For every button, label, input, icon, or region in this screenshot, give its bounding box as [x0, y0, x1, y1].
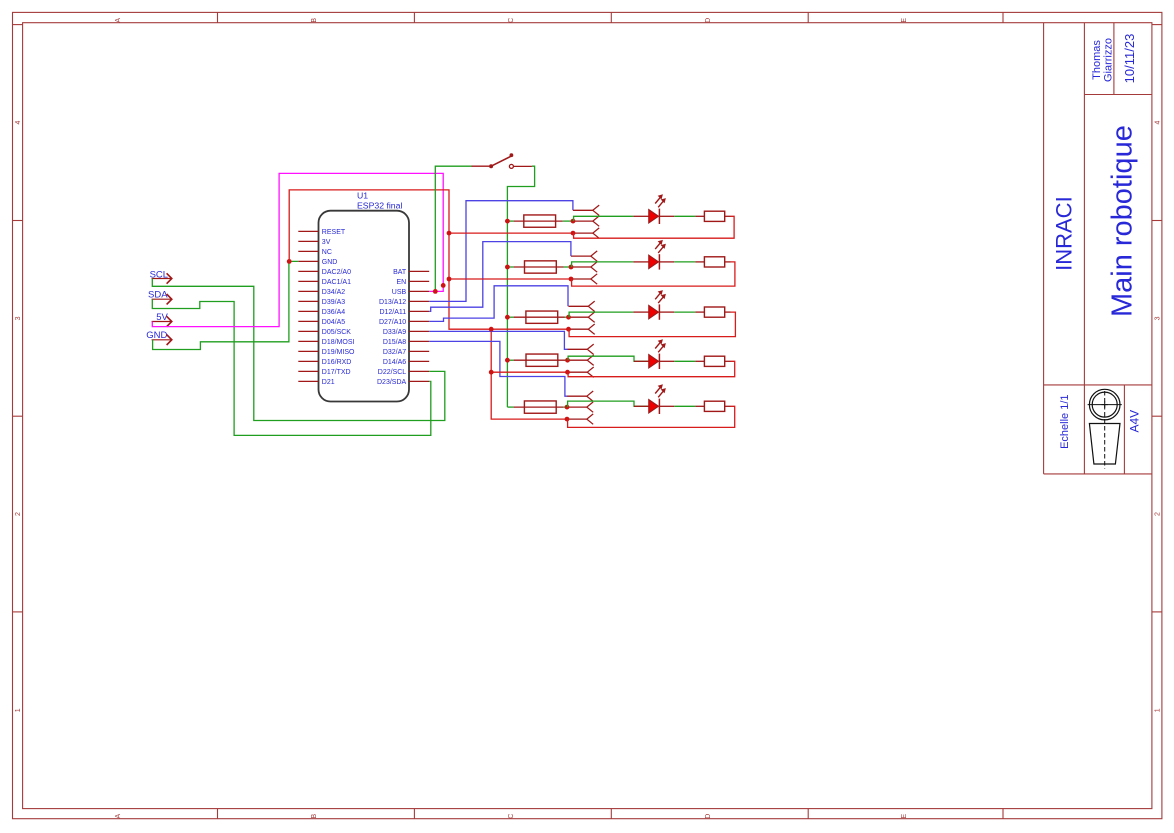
chip pin left D17/TXD — [298, 370, 318, 372]
wire wrap R3b back to J3 bottom — [569, 312, 735, 337]
chip pin right D12/A11 — [409, 310, 429, 312]
svg-text:1: 1 — [15, 708, 22, 712]
chip pin right D14/A6 — [409, 360, 429, 362]
svg-text:D22/SCL: D22/SCL — [378, 369, 407, 376]
wire LED4 to R4b — [659, 360, 674, 362]
svg-text:D15/A8: D15/A8 — [383, 339, 406, 346]
junction red riser row4 — [489, 370, 494, 375]
frame row dividers — [13, 220, 23, 222]
chip pin left GND — [298, 260, 318, 262]
svg-text:10/11/23: 10/11/23 — [1122, 34, 1137, 84]
svg-text:D: D — [705, 18, 712, 23]
chip pin left 3V — [298, 240, 318, 242]
connector J5 pins — [567, 395, 587, 397]
resistor R3a (series) — [507, 316, 513, 318]
svg-text:INRACI: INRACI — [1052, 196, 1077, 271]
svg-text:C: C — [508, 18, 515, 23]
junction green bus row4 — [505, 358, 510, 363]
chip pin right D13/A12 — [409, 300, 429, 302]
switch S1 lead left — [472, 165, 490, 167]
LED D4 emission arrows — [655, 341, 661, 349]
junction J3 bottom pin — [566, 327, 571, 332]
svg-text:D14/A6: D14/A6 — [383, 359, 406, 366]
wire green J5 to LED5 — [568, 401, 649, 407]
junction on 5V wire — [441, 283, 446, 288]
svg-text:DAC2/A0: DAC2/A0 — [322, 269, 351, 276]
connector J3 pins — [569, 305, 589, 307]
wire LED2 to R2b — [659, 261, 674, 263]
wire blue D33/A9 to J4 — [429, 331, 567, 349]
LED D1 emission arrows — [655, 196, 661, 204]
wire green J4 to LED4 — [568, 356, 649, 361]
svg-text:GND: GND — [322, 259, 338, 266]
svg-text:D13/A12: D13/A12 — [379, 299, 406, 306]
svg-text:D36/A4: D36/A4 — [322, 309, 345, 316]
wire blue D12/A11 to J2 — [429, 242, 571, 312]
svg-text:D19/MISO: D19/MISO — [322, 349, 355, 356]
wire red bus row3 — [491, 328, 568, 330]
connector J1 pins — [573, 209, 593, 211]
svg-text:D16/RXD: D16/RXD — [322, 359, 352, 366]
resistor R5a (series) — [507, 406, 513, 408]
junction green bus row1 — [505, 219, 510, 224]
chip pin left DAC1/A1 — [298, 280, 318, 282]
wire 5V net magenta (5V label to USB pin) — [152, 173, 443, 326]
svg-text:RESET: RESET — [322, 229, 346, 236]
svg-text:D04/A5: D04/A5 — [322, 319, 345, 326]
chip pin left NC — [298, 250, 318, 252]
junction J1 middle pin — [571, 219, 576, 224]
svg-text:A4V: A4V — [1128, 410, 1142, 433]
wire green switch feed to USB — [435, 166, 471, 291]
svg-text:D18/MOSI: D18/MOSI — [322, 339, 355, 346]
resistor R4b — [704, 356, 724, 366]
chip pin right D23/SDA — [409, 380, 429, 382]
LED D2 — [649, 255, 659, 268]
chip pin right D22/SCL — [409, 370, 429, 372]
svg-text:4: 4 — [15, 121, 22, 125]
svg-text:U1: U1 — [357, 191, 368, 201]
chip pin left DAC2/A0 — [298, 270, 318, 272]
svg-text:EN: EN — [396, 279, 406, 286]
svg-text:E: E — [901, 814, 908, 819]
junction red riser row3 — [489, 327, 494, 332]
LED D1 — [649, 210, 659, 223]
projection symbol — [1089, 389, 1120, 420]
wire red bus row1 — [449, 232, 573, 234]
svg-text:D27/A10: D27/A10 — [379, 319, 406, 326]
svg-text:USB: USB — [392, 289, 407, 296]
svg-text:2: 2 — [15, 512, 22, 516]
chip pin left D36/A4 — [298, 310, 318, 312]
svg-text:D17/TXD: D17/TXD — [322, 369, 351, 376]
svg-text:D23/SDA: D23/SDA — [377, 379, 407, 386]
wire LED5 to R5b — [659, 405, 674, 407]
svg-text:3: 3 — [1155, 316, 1162, 320]
junction green bus row2 — [505, 265, 510, 270]
svg-text:D: D — [705, 814, 712, 819]
junction J3 middle pin — [566, 315, 571, 320]
chip pin right D27/A10 — [409, 320, 429, 322]
chip pin left D19/MISO — [298, 350, 318, 352]
frame band top ticks — [13, 24, 23, 26]
svg-text:D21: D21 — [322, 379, 335, 386]
junction J2 middle pin — [569, 265, 574, 270]
chip pin left D18/MOSI — [298, 340, 318, 342]
svg-text:D39/A3: D39/A3 — [322, 299, 345, 306]
connector J2 pins — [571, 255, 591, 257]
wire LED3 to R3b — [659, 311, 674, 313]
svg-text:A: A — [115, 814, 122, 819]
wire LED1 to R1b — [659, 215, 674, 217]
svg-text:2: 2 — [1155, 512, 1162, 516]
chip pin right D33/A9 — [409, 330, 429, 332]
title block grid — [1043, 23, 1045, 474]
svg-text:Thomas: Thomas — [1091, 40, 1103, 80]
LED D5 emission arrows — [655, 386, 661, 394]
svg-text:1: 1 — [1155, 708, 1162, 712]
junction red riser row1 — [447, 231, 452, 236]
wire green J1 to LED1 — [574, 216, 634, 221]
resistor R5b — [704, 401, 724, 411]
resistor R1a (series) — [507, 220, 513, 222]
svg-text:NC: NC — [322, 249, 332, 256]
svg-text:4: 4 — [1155, 121, 1162, 125]
chip pin right D32/A7 — [409, 350, 429, 352]
chip pin left D16/RXD — [298, 360, 318, 362]
junction J4 bottom pin — [565, 370, 570, 375]
svg-text:Main robotique: Main robotique — [1107, 125, 1139, 317]
chip pin right BAT — [409, 270, 429, 272]
junction J5 middle pin — [565, 405, 570, 410]
resistor R3b — [704, 307, 724, 317]
wire SCL net (D22/SCL to SCL label) — [152, 279, 445, 421]
wire GND label to GND pin — [153, 261, 299, 349]
svg-text:B: B — [311, 18, 318, 23]
resistor R4a (series) — [507, 359, 513, 361]
svg-text:D12/A11: D12/A11 — [379, 309, 406, 316]
switch S1 lever — [491, 156, 511, 166]
wire SDA net (D23/SDA to SDA label) — [152, 299, 431, 435]
LED D3 emission arrows — [655, 292, 661, 300]
junction GND pin — [287, 259, 292, 264]
junction J5 bottom pin — [565, 417, 570, 422]
wire red bus row2 — [449, 278, 571, 280]
wire wrap R5b back to J5 bottom — [568, 406, 735, 427]
chip pin left D34/A2 — [298, 290, 318, 292]
chip pin left D04/A5 — [298, 320, 318, 322]
junction green bus row3 — [505, 315, 510, 320]
connector J4 pins — [568, 348, 588, 350]
wire wrap R1b back to J1 bottom — [574, 216, 735, 238]
LED D3 — [649, 306, 659, 319]
svg-text:D34/A2: D34/A2 — [322, 289, 345, 296]
chip pin left D39/A3 — [298, 300, 318, 302]
switch S1 pole — [489, 164, 493, 168]
chip pin right EN — [409, 280, 429, 282]
svg-text:Giarrizzo: Giarrizzo — [1102, 38, 1114, 82]
wire wrap R2b back to J2 bottom — [572, 262, 735, 286]
svg-text:E: E — [901, 18, 908, 23]
wire red bus row4 — [491, 371, 567, 373]
svg-text:B: B — [311, 814, 318, 819]
wire green J2 to LED2 — [572, 262, 634, 267]
op chip U1 body — [319, 211, 410, 402]
wire wrap R4b back to J4 bottom — [568, 361, 735, 376]
chip pin right D15/A8 — [409, 340, 429, 342]
resistor R2b — [704, 257, 724, 267]
svg-text:Echelle 1/1: Echelle 1/1 — [1059, 394, 1071, 448]
junction J4 middle pin — [565, 358, 570, 363]
svg-text:BAT: BAT — [393, 269, 407, 276]
switch S1 lead right — [513, 165, 532, 167]
chip pin left D21 — [298, 380, 318, 382]
svg-text:3: 3 — [15, 316, 22, 320]
wire GND red riser to bottom-pin bus — [289, 190, 567, 419]
LED D2 emission arrows — [655, 242, 661, 250]
junction red riser row2 — [447, 277, 452, 282]
junction green/USB — [433, 289, 438, 294]
svg-text:C: C — [508, 814, 515, 819]
svg-text:ESP32 final: ESP32 final — [357, 200, 402, 210]
wire blue D15/A8 to J5 — [429, 341, 567, 396]
LED D5 — [649, 400, 659, 413]
chip pin left RESET — [298, 230, 318, 232]
resistor R2a (series) — [507, 266, 513, 268]
wire blue D13/A12 to J1 — [429, 201, 573, 302]
resistor R1b — [704, 211, 724, 221]
LED D4 — [649, 355, 659, 368]
svg-text:D32/A7: D32/A7 — [383, 349, 406, 356]
wire green switch output to resistor bus — [507, 166, 534, 407]
chip pin right USB — [409, 290, 429, 292]
wire green J3 to LED3 — [569, 312, 633, 317]
svg-text:D05/SCK: D05/SCK — [322, 329, 352, 336]
frame column dividers — [217, 12, 219, 22]
svg-text:DAC1/A1: DAC1/A1 — [322, 279, 351, 286]
switch S1 throw contact — [509, 164, 513, 168]
svg-text:3V: 3V — [322, 239, 331, 246]
svg-text:A: A — [115, 18, 122, 23]
chip pin left D05/SCK — [298, 330, 318, 332]
junction J2 bottom pin — [569, 277, 574, 282]
junction J1 bottom pin — [571, 231, 576, 236]
svg-text:D33/A9: D33/A9 — [383, 329, 406, 336]
wire blue D27/A10 to J3 — [429, 286, 568, 322]
